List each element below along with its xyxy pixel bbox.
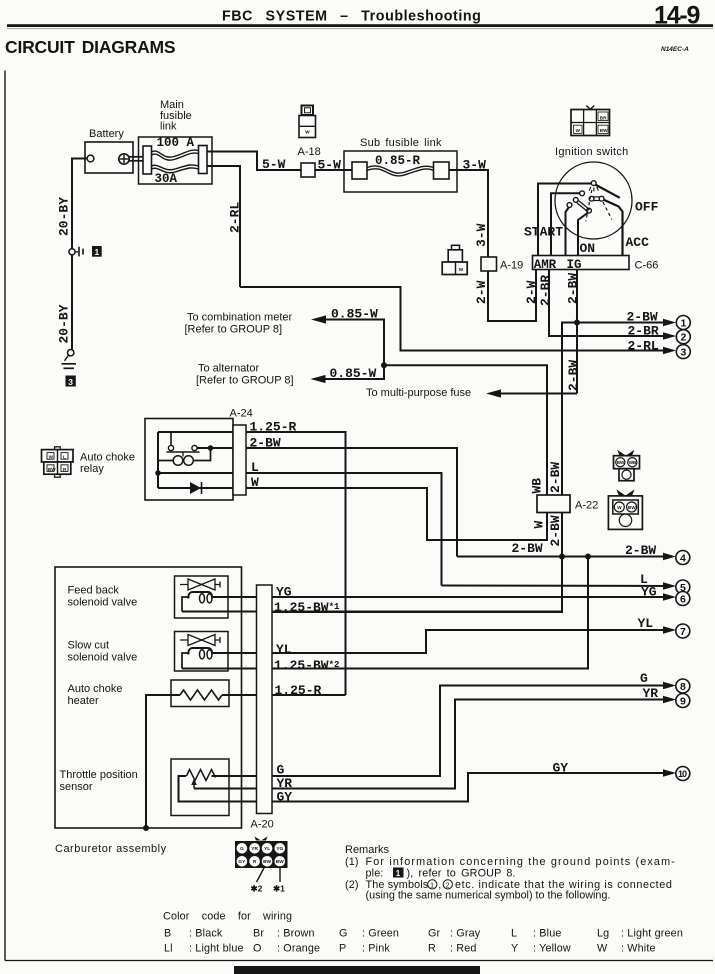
- svg-text:Feed back: Feed back: [68, 585, 120, 597]
- ignition switch circle: [555, 162, 632, 239]
- svg-text:1: 1: [430, 882, 434, 889]
- frame bottom rule: [5, 960, 713, 962]
- ignition ACC lever and wire: [602, 199, 623, 256]
- sub fusible link box: [344, 151, 457, 192]
- wire YL to circuit 7: [212, 630, 674, 653]
- wire G to circuit 8: [212, 686, 674, 777]
- color code row 2: [164, 943, 656, 955]
- svg-text:4: 4: [680, 552, 686, 564]
- svg-text:G: G: [339, 928, 348, 940]
- svg-text:3: 3: [681, 346, 687, 358]
- svg-text:1: 1: [95, 247, 100, 257]
- relay internal top wire: [158, 431, 246, 433]
- feed back valve symbol: [180, 579, 220, 590]
- svg-text:Battery: Battery: [89, 128, 124, 140]
- svg-text:2-BW: 2-BW: [548, 462, 563, 493]
- carburetor assembly box: [55, 567, 242, 828]
- ignition contact circles: [580, 191, 585, 196]
- relay contact bar: [167, 451, 200, 453]
- svg-text:YG: YG: [276, 846, 283, 852]
- arrowhead combination meter: [311, 315, 326, 323]
- svg-text:To alternator: To alternator: [198, 363, 259, 375]
- wire L to circuit 5: [442, 585, 674, 588]
- svg-text:W: W: [49, 455, 54, 460]
- svg-text:Sub fusible link: Sub fusible link: [360, 137, 442, 149]
- svg-text:To combination meter: To combination meter: [187, 312, 292, 324]
- relay junction dot on left bus: [155, 470, 161, 476]
- wire 1.25-R relay output down to heater: [246, 432, 346, 695]
- svg-text:W: W: [251, 475, 259, 490]
- svg-text:W: W: [617, 505, 622, 510]
- svg-text:FBC SYSTEM – Troubleshooting: FBC SYSTEM – Troubleshooting: [222, 9, 481, 25]
- svg-text:For information concerning the: For information concerning the ground po…: [366, 856, 676, 868]
- svg-text:2-BR: 2-BR: [538, 275, 553, 306]
- svg-text:L: L: [511, 928, 517, 940]
- battery negative terminal: [87, 155, 94, 162]
- svg-text:8: 8: [680, 681, 686, 693]
- svg-text:BW: BW: [48, 467, 56, 472]
- svg-text:Throttle position: Throttle position: [60, 769, 138, 781]
- svg-text:(using the same numerical symb: (using the same numerical symbol) to the…: [366, 890, 611, 902]
- relay L wire: [158, 472, 246, 474]
- junction dot 0.85-W: [381, 362, 387, 368]
- TPS lower wire GY: [179, 773, 674, 802]
- svg-text:), refer to GROUP 8.: ), refer to GROUP 8.: [407, 867, 516, 879]
- svg-text:BW: BW: [276, 859, 284, 865]
- svg-text:2-BW: 2-BW: [625, 543, 656, 558]
- svg-text:L: L: [251, 460, 259, 475]
- svg-text:✱1: ✱1: [273, 884, 285, 894]
- wire YR wiper to circuit 9: [194, 700, 673, 789]
- svg-text:GY: GY: [238, 859, 246, 865]
- svg-text:Remarks: Remarks: [345, 844, 390, 856]
- svg-text:30A: 30A: [155, 172, 178, 186]
- svg-text:Br: Br: [253, 928, 264, 940]
- TPS resistor element: [187, 770, 216, 781]
- svg-text:ACC: ACC: [626, 235, 650, 250]
- svg-text:7: 7: [680, 626, 686, 638]
- svg-text:9: 9: [680, 695, 686, 707]
- svg-text:YR: YR: [251, 846, 258, 852]
- ignition pivot circle: [591, 181, 596, 186]
- wire 3-W from sub fusible link down through A-19: [449, 170, 488, 257]
- arrowhead alternator: [311, 375, 326, 383]
- heater resistor element: [180, 690, 222, 700]
- svg-text:2-BW: 2-BW: [566, 273, 581, 304]
- connector C-66 box: [533, 256, 630, 270]
- leader line to *2: [257, 866, 266, 882]
- wire START feed to pivot: [538, 184, 592, 256]
- svg-text:G: G: [640, 671, 648, 686]
- svg-text:W: W: [305, 130, 310, 135]
- wire 0.85-W to combination meter: [314, 320, 385, 380]
- svg-text:: Gray: : Gray: [450, 928, 481, 940]
- connector icon BW-WB small: [614, 451, 640, 481]
- sub fusible link left square: [352, 162, 367, 179]
- ground symbol 3: [68, 350, 74, 356]
- svg-text:B: B: [164, 928, 171, 940]
- arrowhead multi-purpose fuse: [486, 389, 501, 397]
- svg-text:sensor: sensor: [60, 781, 93, 793]
- svg-text:Carburetor assembly: Carburetor assembly: [55, 843, 167, 855]
- svg-text:Auto choke: Auto choke: [80, 452, 135, 464]
- svg-text:[Refer to GROUP 8]: [Refer to GROUP 8]: [185, 324, 283, 336]
- svg-text:: Blue: : Blue: [533, 928, 562, 940]
- svg-text:solenoid valve: solenoid valve: [68, 652, 138, 664]
- svg-text:6: 6: [680, 593, 686, 605]
- svg-text:2-RL: 2-RL: [628, 339, 659, 354]
- svg-text:2-BR: 2-BR: [628, 324, 659, 339]
- connector A-20 icon: [235, 841, 288, 868]
- arrow and circled number 7: [663, 626, 676, 634]
- svg-text:100 A: 100 A: [157, 136, 195, 150]
- svg-text:GY: GY: [277, 790, 293, 805]
- connector A-18 square: [301, 163, 315, 177]
- svg-text:0.85-W: 0.85-W: [330, 366, 377, 381]
- ground junction dot: [143, 825, 149, 831]
- svg-text:Lg: Lg: [597, 928, 609, 940]
- ground point marker in remarks: [393, 868, 404, 878]
- svg-text:: Yellow: : Yellow: [533, 943, 571, 955]
- svg-text:W: W: [597, 943, 608, 955]
- arrow and circled number 8: [663, 682, 676, 690]
- svg-text:A-20: A-20: [251, 819, 274, 831]
- svg-text:YL: YL: [638, 616, 654, 631]
- svg-text:solenoid valve: solenoid valve: [68, 597, 138, 609]
- svg-text:2-W: 2-W: [524, 280, 539, 304]
- svg-text:1: 1: [681, 317, 687, 329]
- svg-text:BW: BW: [628, 505, 636, 510]
- svg-text:relay: relay: [80, 463, 104, 475]
- ignition detent rays: [589, 187, 591, 191]
- wire 2-RL run to circuit 3: [240, 287, 673, 351]
- junction dot IG branch: [574, 320, 580, 326]
- svg-text:A-18: A-18: [298, 146, 321, 158]
- main fusible link left holder: [143, 146, 152, 174]
- wire 100A output to 5-W: [207, 152, 301, 171]
- arrow and circled number 2: [663, 332, 676, 340]
- svg-text:20-BY: 20-BY: [57, 304, 72, 343]
- bottom partial black bar: [234, 966, 480, 974]
- svg-text:: White: : White: [621, 943, 656, 955]
- wire 30A output down (2-RL): [207, 166, 240, 287]
- battery positive terminal: [119, 154, 129, 164]
- svg-text:P: P: [339, 943, 346, 955]
- slow cut solenoid coil and wires: [182, 653, 188, 669]
- svg-text:1: 1: [396, 869, 401, 878]
- svg-text:[Refer to GROUP 8]: [Refer to GROUP 8]: [196, 375, 294, 387]
- battery box: [85, 142, 133, 173]
- svg-text:To multi-purpose fuse: To multi-purpose fuse: [366, 387, 471, 399]
- wire 2-BW to circuit 4: [457, 556, 673, 558]
- wire 2-BW from IG pin down to multi-purpose fuse line: [576, 270, 578, 394]
- ground point 1 connector symbol: [69, 249, 75, 255]
- header rule: [7, 24, 713, 27]
- wire W from A-22 down to relay W line: [246, 488, 547, 540]
- leader line to *1: [279, 866, 281, 882]
- relay contact stem: [170, 432, 172, 446]
- svg-text:2-BW: 2-BW: [627, 310, 658, 325]
- svg-text:2-BW: 2-BW: [250, 436, 281, 451]
- wire L relay output to circuit 5: [246, 473, 442, 586]
- svg-text:WB: WB: [629, 460, 637, 465]
- svg-text:A-22: A-22: [575, 500, 598, 512]
- relay coil loops: [173, 456, 183, 466]
- svg-text:2: 2: [446, 882, 450, 889]
- svg-text:3-W: 3-W: [474, 223, 489, 247]
- svg-text:W: W: [459, 267, 464, 272]
- heater ground wire to carburetor body: [146, 695, 180, 828]
- svg-text:A-24: A-24: [230, 408, 253, 420]
- svg-text:ON: ON: [580, 241, 596, 256]
- ignition moving contact lever (double line): [579, 201, 590, 210]
- svg-text:: Light green: : Light green: [621, 928, 683, 940]
- svg-text:R: R: [428, 943, 436, 955]
- svg-text:IG: IG: [567, 258, 582, 272]
- svg-text:1.25-BW*2: 1.25-BW*2: [274, 658, 339, 673]
- wire 1.25-R heater to strip: [222, 694, 346, 696]
- svg-text:2-BW: 2-BW: [548, 515, 563, 546]
- svg-text:3: 3: [68, 377, 73, 387]
- svg-text:2-BW: 2-BW: [566, 360, 581, 391]
- svg-text:Gr: Gr: [428, 928, 441, 940]
- svg-text:10: 10: [678, 769, 687, 779]
- TPS wiper arrow: [193, 782, 195, 789]
- connector icon W-BW large: [608, 491, 642, 530]
- svg-text:(2): (2): [345, 879, 359, 891]
- svg-text:3-W: 3-W: [463, 157, 487, 172]
- relay wire contact to 2-BW pin: [197, 447, 246, 449]
- fuse wavy element 0.85-R (double line): [367, 166, 434, 173]
- fuse wavy element 30A (double line): [152, 165, 199, 170]
- svg-text:: Brown: : Brown: [277, 928, 315, 940]
- svg-text:: Light blue: : Light blue: [189, 943, 244, 955]
- svg-text:W: W: [532, 521, 547, 529]
- svg-text:1.25-R: 1.25-R: [250, 420, 297, 435]
- svg-text:YR: YR: [643, 686, 659, 701]
- svg-text:BW: BW: [263, 859, 271, 865]
- svg-text:Ll: Ll: [164, 943, 173, 955]
- svg-text:G: G: [240, 846, 244, 852]
- svg-text:Auto choke: Auto choke: [68, 683, 123, 695]
- svg-text:✱2: ✱2: [251, 884, 263, 894]
- relay coil feed: [158, 448, 211, 461]
- wire 0.85-W branch right to A-22: [384, 365, 547, 495]
- svg-text:2: 2: [681, 332, 687, 344]
- fuse wavy element 100A (double line): [152, 150, 199, 157]
- svg-text:YG: YG: [276, 585, 292, 600]
- ignition switch connector icon: [571, 106, 610, 136]
- svg-text:BW: BW: [617, 460, 625, 465]
- svg-text:: Orange: : Orange: [277, 943, 320, 955]
- svg-text:L: L: [63, 455, 66, 460]
- svg-text:0.85-R: 0.85-R: [375, 154, 421, 168]
- wire battery positive to fusible link (double): [129, 156, 144, 158]
- svg-text:2-W: 2-W: [474, 280, 489, 304]
- connector A-18 icon: [299, 106, 316, 138]
- connector A-19 icon: [442, 245, 467, 274]
- throttle position sensor box: [171, 759, 229, 816]
- svg-text:1.25-R: 1.25-R: [275, 683, 322, 698]
- arrow and circled number 1: [663, 319, 676, 327]
- wire 2-W from A-19 to C-66 AM: [488, 270, 536, 321]
- slow cut valve symbol: [180, 635, 220, 646]
- svg-text:Y: Y: [511, 943, 518, 955]
- connector A-20 strip: [257, 585, 273, 814]
- svg-text:Slow cut: Slow cut: [68, 640, 110, 652]
- wire 20-BY battery negative down to ground: [72, 159, 87, 249]
- svg-text:BR: BR: [600, 115, 607, 120]
- connector A-22 box: [537, 495, 570, 513]
- arrow and circled number 10: [663, 769, 676, 777]
- wire 1.25-BW*1 up to circuit 4 line: [182, 611, 562, 613]
- wire A-18 to sub fusible link, 5-W: [315, 169, 352, 171]
- svg-text:link: link: [160, 121, 177, 133]
- relay diode: [190, 482, 201, 494]
- svg-text:20-BY: 20-BY: [57, 197, 72, 236]
- wire 2-BR from R pin to circuit 2: [549, 270, 673, 337]
- wire 1.25-BW*2 up to circuit 4 line: [182, 557, 588, 669]
- arrow and circled number 3: [663, 347, 676, 355]
- svg-text:N14EC-A: N14EC-A: [661, 46, 689, 53]
- svg-text:W: W: [576, 128, 581, 133]
- main fusible link box: [139, 137, 213, 184]
- auto choke relay box: [145, 419, 233, 501]
- auto choke heater box: [171, 680, 229, 707]
- wire 2-BW branch to circuit 1: [577, 322, 673, 324]
- svg-text:Ignition switch: Ignition switch: [555, 146, 629, 158]
- wire ON contact down: [566, 207, 570, 256]
- svg-text:C-66: C-66: [635, 260, 659, 272]
- svg-text:YL: YL: [276, 642, 292, 657]
- svg-text:START: START: [524, 225, 563, 240]
- wire IG contact down: [578, 212, 588, 255]
- svg-text:2-BW: 2-BW: [512, 541, 543, 556]
- svg-text:O: O: [253, 943, 262, 955]
- connector A-19 square: [481, 257, 497, 271]
- svg-text:A-19: A-19: [500, 260, 523, 272]
- arrow and circled number 5: [663, 582, 676, 590]
- relay contact circles: [168, 445, 173, 450]
- slow cut solenoid valve box: [175, 632, 229, 672]
- svg-text:(1): (1): [345, 856, 359, 868]
- auto choke relay connector icon: [42, 447, 74, 477]
- relay junction dot: [208, 445, 214, 451]
- wire to multi-purpose fuse: [489, 393, 577, 395]
- svg-text:Color code for wiring: Color code for wiring: [163, 911, 292, 923]
- relay diode wire: [158, 487, 246, 489]
- svg-text:: Pink: : Pink: [362, 943, 390, 955]
- feed back solenoid valve box: [175, 576, 229, 618]
- svg-text:GY: GY: [553, 761, 569, 776]
- svg-text:CIRCUIT DIAGRAMS: CIRCUIT DIAGRAMS: [5, 37, 175, 57]
- wire YG to circuit 6: [212, 596, 674, 598]
- svg-text:AM: AM: [534, 258, 549, 272]
- arrow and circled number 6: [663, 593, 676, 601]
- svg-text:: Green: : Green: [362, 928, 399, 940]
- ignition lever pivot to OFF: [595, 185, 619, 198]
- svg-text:ple:: ple:: [366, 867, 384, 879]
- wire R contact feed: [551, 193, 580, 255]
- frame left border: [4, 71, 6, 961]
- arrow and circled number 9: [663, 696, 676, 704]
- svg-text:5-W: 5-W: [318, 157, 342, 172]
- svg-text:heater: heater: [68, 695, 100, 707]
- svg-text:WB: WB: [530, 478, 545, 494]
- svg-text:YG: YG: [641, 585, 657, 600]
- relay internal left bus: [157, 432, 159, 488]
- svg-text:2-RL: 2-RL: [228, 202, 243, 233]
- main fusible link right holder: [199, 146, 208, 174]
- ignition bridge contact bar: [592, 197, 602, 201]
- svg-text:R: R: [253, 859, 257, 865]
- svg-text:BW: BW: [600, 128, 608, 133]
- color code row 1: [164, 928, 683, 940]
- svg-text:: Black: : Black: [189, 928, 223, 940]
- connector A-24 strip: [233, 425, 246, 495]
- junction dots on circuit 4 line: [559, 554, 565, 560]
- ground point 1 black square marker: [92, 246, 102, 257]
- arrow and circled number 4: [663, 553, 676, 561]
- ground point 3 black square marker: [66, 376, 76, 387]
- svg-text:5-W: 5-W: [262, 157, 286, 172]
- ignition dashed travel lines: [586, 190, 592, 222]
- svg-text:OFF: OFF: [635, 200, 659, 215]
- feed back solenoid coil and wires: [182, 597, 188, 612]
- wire 2-BW relay output to circuit 4 line: [246, 448, 457, 557]
- svg-text:: Red: : Red: [450, 943, 477, 955]
- wire 2-BW long branch down through A-22: [257, 323, 577, 613]
- sub fusible link right square: [434, 162, 450, 179]
- svg-text:YL: YL: [264, 846, 270, 852]
